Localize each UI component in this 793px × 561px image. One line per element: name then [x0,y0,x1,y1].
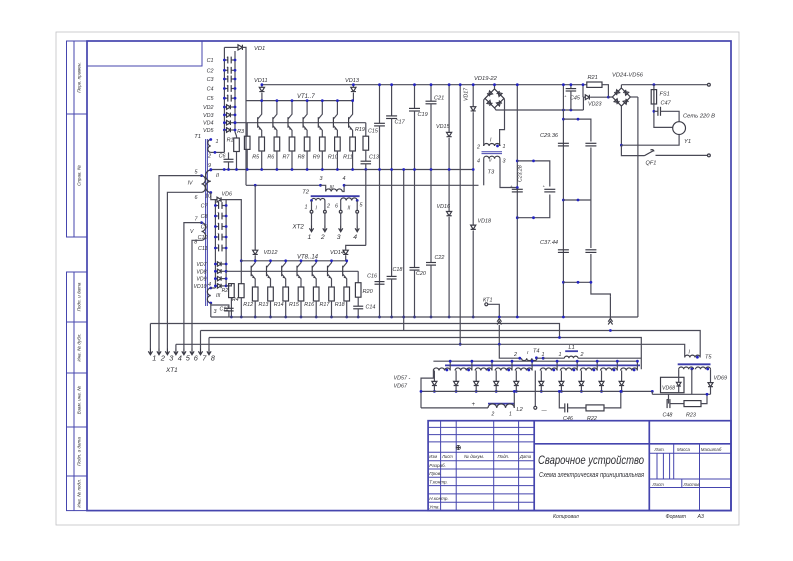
wire bus A [150,324,559,338]
title block right part [534,443,731,445]
wire [691,369,693,394]
wire [321,151,323,170]
svg-text:6: 6 [335,204,338,210]
XT2 pin 3 [339,226,343,232]
wire [285,301,287,317]
resistor R1 [234,138,240,152]
svg-text:R16: R16 [304,302,314,308]
transistor VT3 [288,101,292,119]
svg-text:R3: R3 [237,129,244,135]
svg-text:6: 6 [195,195,198,201]
wire [621,135,679,146]
node bank top [224,46,238,48]
transformer T3 winding I [484,144,500,146]
chain winding 4 [495,368,512,371]
diode VD8 [215,270,217,272]
svg-text:1: 1 [216,139,219,145]
diode VD65 [601,371,603,382]
svg-text:C4: C4 [207,87,214,93]
diode VD12 [254,185,256,250]
wire [701,394,707,403]
diode VD59 [475,371,477,382]
capacitor C6 [224,158,234,160]
XT2 pin 2 [323,226,327,232]
svg-text:4: 4 [353,234,357,241]
resistor R3 [244,136,250,149]
wire base bus lower [241,260,347,262]
capacitor bank C1-C5 buses [223,47,225,152]
wire [494,85,496,89]
svg-text:Y1: Y1 [684,139,691,145]
svg-text:VD57 -: VD57 - [394,376,411,382]
svg-text:T2: T2 [302,190,310,196]
svg-text:R5: R5 [252,155,260,161]
inductor L1 [564,356,578,358]
wire [254,301,256,317]
wire [167,192,201,348]
diode VD17 [471,107,476,111]
capacitor C19 [409,107,420,109]
svg-text:VD3: VD3 [203,113,214,119]
diode VD61 [515,371,517,382]
wire [243,47,247,185]
wire [346,301,348,317]
wire T1-4 to lower bank [211,287,216,289]
svg-text:III: III [216,293,221,299]
capacitor C46 [564,403,566,412]
diode VD5 [224,129,226,131]
capacitor C2 [224,69,227,71]
svg-text:Копировал: Копировал [553,514,579,520]
resistor R5 [259,137,265,151]
diode VD66 [621,371,623,382]
wire [235,132,237,138]
capacitor C48 [666,399,668,408]
svg-text:VD16: VD16 [437,204,451,210]
wire base line lower [226,270,358,272]
svg-text:Формат: Формат [666,514,687,520]
wire [414,111,416,268]
wire snubber [559,391,565,408]
wire [391,279,393,317]
svg-text:VD1: VD1 [254,46,265,52]
wire rail B [562,85,564,317]
svg-text:4: 4 [477,159,480,165]
svg-text:R18: R18 [335,302,345,308]
svg-text:C12: C12 [220,307,230,313]
wire [210,303,212,317]
svg-text:1: 1 [305,205,308,211]
capacitor C1 [224,59,227,61]
diode VD13 [352,85,354,88]
margin box Справ. № [67,114,88,237]
frame border [87,41,731,511]
resistor R9 [320,137,326,151]
wire [344,184,478,186]
svg-text:+: + [226,74,228,78]
margin box Инв. № подл. [67,476,88,511]
XT1 pin 1 [148,349,152,355]
wire [620,106,622,145]
svg-text:3: 3 [320,176,323,182]
svg-text:R20: R20 [363,289,374,295]
wire [568,407,586,409]
svg-text:VD4: VD4 [203,121,214,127]
diode VD11 [261,85,263,88]
transistor VT12 [312,261,316,268]
XT1 pin 4 [174,349,178,355]
svg-text:VD68: VD68 [662,386,675,392]
wire chain bottom bus [421,390,652,392]
wire [582,97,584,110]
wire [261,151,263,170]
diode VD16 [447,212,452,216]
svg-text:FS1: FS1 [660,92,670,98]
wire base bus upper [246,100,353,102]
wire bridge lower output [495,108,584,110]
capacitor group C23,28 [517,161,550,187]
margin box Инв. № дубл. [67,322,88,373]
svg-text:T4: T4 [533,349,540,355]
chain winding 6 [540,368,557,371]
resistor R18 [344,287,350,301]
wire rail VD17/VD18 [472,85,474,107]
wire rail VD15/VD16 [448,85,450,133]
capacitor C13 [361,160,372,162]
wire [578,357,641,359]
wire [602,85,608,97]
svg-text:+: + [226,55,228,59]
capacitor C15 [374,122,385,124]
title block [428,421,731,511]
svg-text:L2: L2 [517,407,524,413]
XT1 pin 8 [207,349,211,355]
resistor R17 [329,287,335,301]
wire [357,309,359,317]
wire rail C21 [430,85,432,102]
T1 winding II [206,170,211,193]
svg-text:+: + [226,84,228,88]
svg-text:R4: R4 [232,297,239,303]
svg-text:R21: R21 [588,75,598,81]
capacitor C45 [570,85,572,89]
svg-text:Перв. примен.: Перв. примен. [77,62,82,93]
margin box Взам. инв. № [67,373,88,427]
wire [609,297,611,319]
wire base line upper [235,122,366,124]
wire [324,201,326,211]
capacitor C20 [410,267,420,269]
svg-text:10: 10 [205,194,211,200]
wire [300,301,302,317]
resistor R20 [355,283,361,298]
svg-text:Инв. № подл.: Инв. № подл. [77,479,82,508]
wire [270,301,272,317]
wire rail to bridge VD24-56 [637,97,639,317]
capacitor C5 [224,97,227,99]
wire [365,123,367,137]
transformer T5 winding I [685,355,701,357]
svg-text:R19: R19 [355,127,365,133]
svg-text:Сварочное устройство: Сварочное устройство [538,454,644,467]
capacitor C18 [387,275,397,277]
transistor VT13 [328,261,332,268]
capacitor C21 [426,100,437,102]
svg-text:+: + [472,402,476,408]
diode VD23 [582,85,584,98]
diode VD60 [495,371,497,382]
capacitor group C37,44 [590,200,592,248]
svg-text:VD69: VD69 [714,376,728,382]
svg-text:1: 1 [509,412,512,418]
svg-text:2: 2 [326,204,330,210]
svg-text:VD17: VD17 [464,87,470,101]
wire main bus [211,316,638,318]
diode VD1 [238,45,242,50]
svg-text:VT1..7: VT1..7 [297,94,315,100]
wire [159,176,202,349]
svg-text:2: 2 [207,154,211,160]
wire [654,104,673,127]
chain winding 3 [475,368,492,371]
wire [291,151,293,170]
transistor VT8 [251,261,255,268]
wire [246,149,248,169]
resistor R10 [335,137,341,151]
transistor VT14 [343,261,347,268]
svg-text:QF1: QF1 [646,161,657,167]
wire [331,301,333,317]
svg-text:Пров.: Пров. [429,471,441,476]
resistor R6 [274,137,280,151]
wire [500,98,505,146]
svg-text:Справ. №: Справ. № [77,165,82,186]
svg-text:C13: C13 [369,155,379,161]
wire chain top bus [433,360,637,362]
diode VD3 [224,114,226,116]
diode VD62 [540,371,542,382]
capacitor C11 [215,247,218,249]
wire [448,138,450,212]
svg-text:IV: IV [188,181,193,187]
svg-text:VD18: VD18 [478,219,492,225]
svg-text:R1: R1 [227,138,234,144]
XT2 pin 1 [309,226,313,232]
svg-text:+: + [217,222,219,226]
svg-text:C14: C14 [366,305,376,311]
capacitor C12 [224,307,234,309]
transistor VT11 [297,261,301,268]
svg-text:3: 3 [503,159,506,165]
inductor L1 core [565,350,578,352]
wire [365,150,367,161]
svg-text:VD7: VD7 [196,262,207,268]
svg-text:1: 1 [308,234,312,241]
svg-text:Инв. № дубл.: Инв. № дубл. [77,333,82,361]
capacitor C7 [215,205,218,207]
svg-text:T3: T3 [488,170,496,176]
chain winding 5 [515,368,532,371]
svg-text:C20: C20 [416,271,426,277]
diode VD18 [471,225,476,229]
svg-text:C46: C46 [563,416,573,422]
svg-text:C29.36: C29.36 [540,133,559,139]
svg-text:Лит.: Лит. [654,447,665,452]
wire [356,201,358,211]
svg-text:R22: R22 [587,416,597,422]
svg-text:C47: C47 [661,101,672,107]
svg-text:Подп. и дата: Подп. и дата [77,282,82,311]
chain winding 10 [621,368,638,371]
wire [240,298,242,317]
svg-text:VD2: VD2 [203,105,214,111]
svg-text:9: 9 [208,163,211,169]
margin box Перв. примен. [67,41,88,114]
wire bus C [209,338,641,370]
capacitor bank C7-C11 buses [214,200,216,288]
wire [228,162,230,170]
svg-text:L1: L1 [569,345,575,351]
svg-text:Взам. инв. №: Взам. инв. № [77,386,82,414]
wire bus B [201,331,701,357]
svg-text:VD5: VD5 [203,128,214,134]
wire [306,151,308,170]
svg-text:C18: C18 [393,267,403,273]
capacitor C9 [215,226,218,228]
transistor VT9 [267,261,271,268]
svg-text:R13: R13 [259,302,269,308]
svg-text:Листов: Листов [683,482,701,487]
transformer T2 core [311,195,360,197]
svg-text:Изм: Изм [429,454,437,459]
resistor R8 [304,137,310,151]
diode VD15 [447,132,452,136]
capacitor C3 [224,78,227,80]
XT1 pin 5 [182,349,186,355]
svg-text:Сеть 220 В: Сеть 220 В [683,114,715,120]
svg-text:C45: C45 [570,96,581,102]
resistor R2 [229,284,235,298]
resistor R19 [363,136,369,150]
resistor R21 [587,82,602,87]
resistor R4 [239,284,245,298]
chain winding 2 [455,368,472,371]
wire [223,130,225,152]
chain winding 7 [560,368,577,371]
XT1 pin 6 [190,349,194,355]
svg-text:VD9: VD9 [196,277,206,283]
wire [357,297,359,306]
svg-text:VD67: VD67 [394,384,408,390]
svg-text:—: — [541,408,548,414]
svg-text:1: 1 [559,352,562,358]
resistor R15 [298,287,304,301]
capacitor group C29,36 [563,119,591,141]
T1 winding I [208,140,211,153]
svg-text:Разраб.: Разраб. [429,463,446,468]
svg-text:C1: C1 [207,58,214,64]
svg-text:VD11: VD11 [254,78,268,84]
wire rail R19 lower [365,170,367,246]
wire [211,305,229,308]
svg-text:VD10: VD10 [194,284,207,290]
wire top bus right [621,84,707,86]
wire rail to T4 [459,85,461,345]
wire [620,85,622,88]
diode VD69 [710,369,712,382]
svg-text:C23,28: C23,28 [518,165,524,182]
svg-text:XT1: XT1 [165,367,178,374]
resistor R13 [268,287,274,301]
switch QF1 [621,145,644,155]
wire [211,193,217,200]
wire [365,164,367,170]
wire [228,311,230,317]
svg-text:R11: R11 [343,155,353,161]
wire minus output [534,371,536,407]
inductor L2 core [488,403,514,405]
svg-text:1: 1 [503,144,506,150]
diode VD57 [433,371,435,382]
wire T4 feed [499,344,520,358]
wire [670,403,684,405]
svg-text:VD12: VD12 [264,250,279,256]
transformer T3 winding II [484,156,500,158]
wire [222,200,242,261]
transistor VT10 [282,261,286,268]
wire plus output [421,407,488,409]
svg-text:2: 2 [491,412,495,418]
svg-text:VD8: VD8 [196,269,206,275]
svg-text:C10: C10 [198,235,208,241]
svg-text:КТ1: КТ1 [483,298,492,304]
diode VD68 [678,369,680,382]
resistor R23 [684,401,701,407]
transistor VT4 [303,101,307,119]
svg-text:R14: R14 [274,302,284,308]
svg-text:VD14: VD14 [330,250,344,256]
resistor R14 [283,287,289,301]
svg-text:R9: R9 [313,155,320,161]
wire [500,159,517,188]
svg-text:C2: C2 [207,68,214,74]
capacitor C10 [215,236,218,238]
wire [357,271,359,283]
svg-text:4: 4 [343,176,346,182]
svg-text:Подп.: Подп. [498,454,510,459]
connector arrow [497,319,501,325]
wire top bus [262,84,587,86]
svg-text:+: + [217,243,219,247]
resistor R7 [289,137,295,151]
wire [352,151,354,170]
fuse FS1 [653,85,655,90]
svg-text:+: + [226,66,228,70]
svg-text:R7: R7 [283,155,291,161]
svg-text:C48: C48 [663,413,673,419]
diode VD64 [580,371,582,382]
XT1 pin 7 [198,349,202,355]
wire [226,284,231,286]
svg-text:C37.44: C37.44 [540,240,558,246]
svg-text:+: + [226,94,228,98]
svg-text:Схема электрическая принципиал: Схема электрическая принципиальная [539,471,644,479]
wire [414,270,416,317]
wire [604,391,621,408]
wire rail [379,85,381,124]
wire [149,324,151,349]
svg-text:4: 4 [178,354,182,363]
